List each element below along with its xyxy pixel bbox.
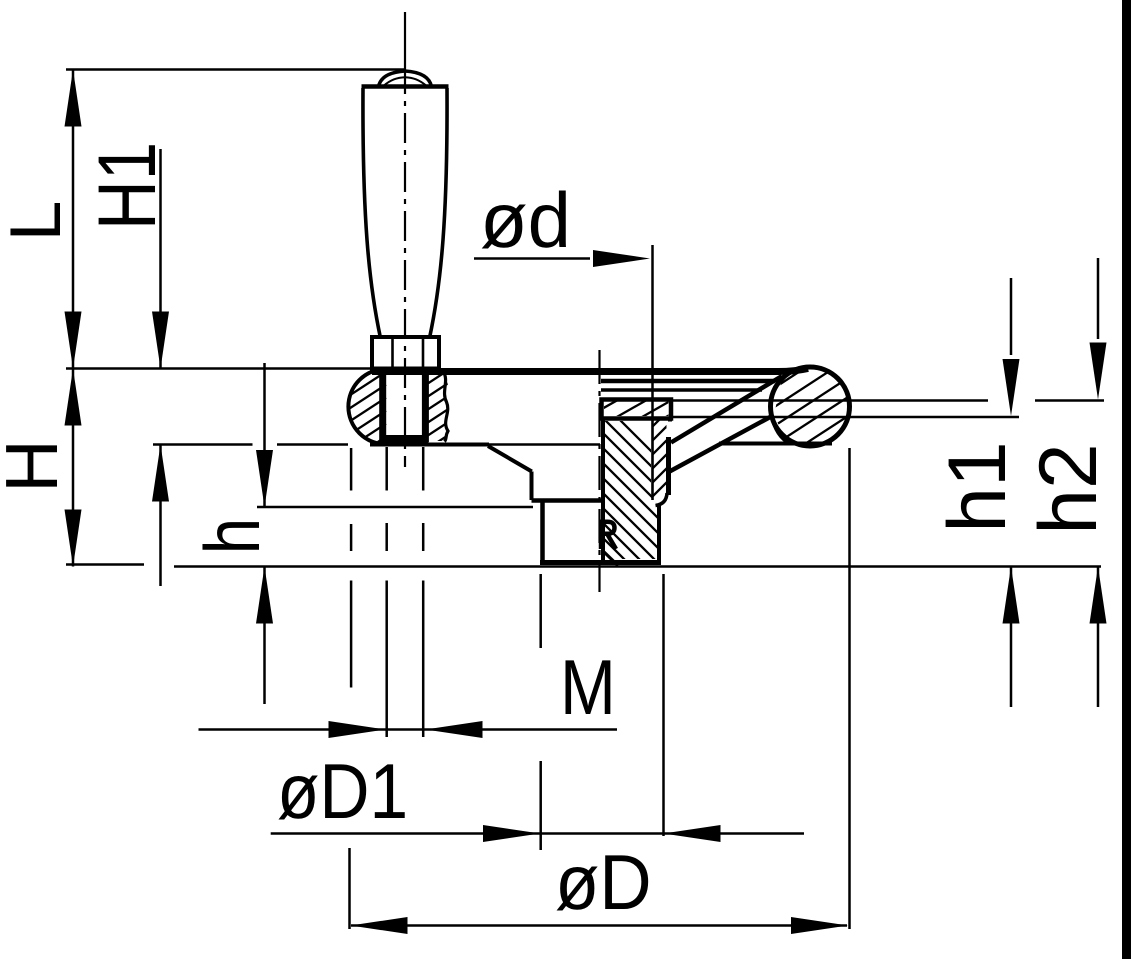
dimension L line	[72, 70, 75, 369]
bore slot bottom u	[656, 493, 668, 506]
left rim break wavy edge	[443, 371, 448, 442]
bore slot right wall	[666, 437, 671, 495]
HATCH-LAYER	[344, 337, 852, 605]
knurl inner line left	[391, 338, 394, 368]
web bottom slant (section)	[670, 416, 773, 472]
svg-text:h1: h1	[932, 441, 1023, 532]
svg-text:M: M	[560, 643, 616, 731]
M extension line right	[422, 447, 425, 737]
handle left side	[363, 88, 381, 338]
top dimension line	[66, 68, 405, 71]
hub column hatch	[598, 398, 670, 605]
arrow h1 down	[1003, 359, 1020, 416]
oD1 extension line left	[539, 574, 542, 850]
h1 reference line	[671, 416, 1019, 419]
label R	[601, 520, 616, 550]
arrow H1 up	[152, 445, 169, 502]
arrow M left	[426, 721, 483, 738]
arrow h2 up	[1090, 567, 1107, 624]
dimension H1 line upper	[159, 149, 162, 369]
arrow H bottom	[65, 510, 82, 567]
right ball hatch	[768, 337, 852, 487]
handle right side	[430, 88, 448, 338]
h reference line	[257, 506, 533, 509]
handle dome inner arc	[384, 77, 426, 85]
knurl inner line right	[422, 338, 425, 368]
oD extension line left	[350, 448, 352, 929]
dimension h1 line	[1010, 278, 1013, 707]
web-rim fillet arc	[772, 416, 790, 444]
svg-text:øD: øD	[555, 838, 652, 926]
black right border strip	[1122, 0, 1131, 959]
arrow L bottom	[65, 312, 82, 369]
rim inner line lower	[601, 388, 762, 391]
arrow h1 up	[1003, 567, 1020, 624]
boss left edge (view side)	[540, 501, 545, 563]
svg-text:øD1: øD1	[277, 747, 408, 835]
web top slant (section)	[671, 376, 782, 443]
dimension h2 line	[1097, 258, 1100, 707]
wheel top surface thick	[372, 369, 808, 372]
svg-text:L: L	[0, 201, 76, 242]
cone slope (view side)	[488, 446, 532, 472]
part bottom edge	[540, 560, 661, 565]
handle top edge	[362, 84, 449, 89]
knurl ring	[372, 337, 439, 369]
dimension H line	[72, 369, 75, 567]
wheel axis centerline	[598, 350, 600, 592]
dimension oD1 line	[271, 832, 804, 835]
svg-text:h2: h2	[1023, 443, 1114, 534]
boss top surface (view side)	[532, 498, 602, 503]
left rim ball arc	[348, 369, 386, 444]
handle centerline	[404, 12, 406, 64]
bore slot left edge thin	[651, 420, 653, 501]
wheel top extension line	[66, 367, 372, 370]
arrow h down	[256, 450, 273, 507]
web bottom line left of hub (view side)	[370, 443, 489, 447]
flange od edge (view side)	[530, 472, 534, 501]
baseline tick left	[66, 563, 144, 566]
arrow oD1 right	[483, 825, 540, 842]
dimension H1 line lower	[159, 445, 162, 587]
arrow oD1 left	[664, 825, 721, 842]
left ball hatch left part	[344, 359, 386, 477]
radius leader line	[603, 551, 618, 566]
handle dome cap	[379, 71, 432, 87]
h2 reference line	[672, 399, 1104, 401]
handle stud bottom bar	[381, 435, 429, 443]
arrow M right	[329, 721, 386, 738]
web window white wedge	[713, 413, 791, 447]
web bottom extension line	[153, 443, 600, 446]
oD1 extension line right	[662, 574, 665, 836]
rim bottom line at right ball	[719, 442, 832, 446]
dimension oD line	[351, 924, 847, 927]
right rim ball circle	[771, 367, 850, 446]
arrow od right	[593, 250, 650, 267]
svg-text:h: h	[188, 518, 276, 554]
arrow oD left	[351, 917, 408, 934]
svg-text:H: H	[0, 439, 73, 492]
rim inner line upper	[601, 379, 775, 384]
arrow H top	[65, 369, 82, 426]
flange hatch	[600, 392, 684, 427]
dimension h line lower	[263, 567, 266, 705]
handle stud left wall	[379, 369, 386, 443]
arrow H1 down	[152, 312, 169, 369]
web window white band	[669, 374, 783, 474]
web band hatch	[680, 410, 775, 475]
flange right edge lower	[668, 420, 672, 422]
od extension line	[651, 245, 654, 500]
left ball hatch right part	[427, 369, 450, 449]
handle stud right wall	[422, 369, 429, 443]
PART-LAYER	[348, 12, 849, 592]
hub right edge below slot	[657, 505, 661, 561]
svg-text:H1: H1	[82, 142, 173, 230]
oD extension line right	[848, 448, 851, 929]
M extension line left	[385, 447, 388, 737]
bore strip hatch	[651, 411, 668, 512]
dimension od line	[474, 257, 590, 260]
dimension M line	[199, 728, 618, 731]
arrow h up	[256, 567, 273, 624]
arrow oD right	[791, 917, 848, 934]
dimension h line upper	[263, 363, 266, 507]
arrow L top	[65, 70, 82, 127]
hub left edge (section)	[601, 420, 605, 562]
arrow h2 down	[1090, 343, 1107, 400]
hub flange rect (section)	[602, 400, 672, 419]
MASK-LAYER	[669, 374, 791, 474]
baseline	[174, 565, 1101, 568]
svg-text:ød: ød	[480, 176, 571, 264]
